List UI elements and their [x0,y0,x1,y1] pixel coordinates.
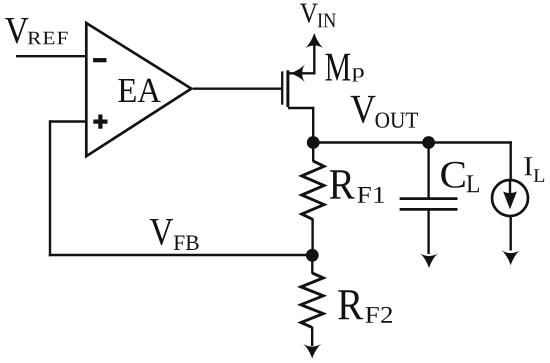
capacitor CL [400,143,458,255]
label Mp [326,54,364,82]
wire VOUT horizontal [313,141,512,143]
resistor RF2 [301,255,323,346]
transistor Mp PMOS [282,64,314,143]
drain horizontal segment [288,107,314,109]
node VOUT dot [307,136,320,149]
label VFB [150,219,199,250]
ground arrow under RF2 [303,344,321,359]
label RF1 [330,170,384,203]
ground arrow under CL [420,253,438,268]
current source IL [492,141,528,250]
label VOUT [351,96,418,128]
op-amp U1 EA [86,23,191,156]
power VIN arrow [305,33,324,75]
wire op-amp output to gate [193,87,281,89]
drain vertical down to VOUT node [312,107,314,143]
resistor RF1 [302,143,324,256]
op-amp minus input symbol [93,58,106,62]
node CL dot [422,136,435,149]
source arrow pointing into channel [290,64,305,82]
gate bar [281,71,283,104]
channel bar [286,70,289,107]
label VIN [300,4,336,28]
wire VFB horizontal [49,254,313,256]
wire left vertical feedback [49,120,51,256]
source horizontal segment [288,72,314,74]
label CL [441,162,479,192]
wire plus input [50,120,86,122]
node VFB dot [306,249,319,262]
label VREF [5,18,68,44]
label RF2 [338,290,392,323]
op-amp plus input symbol [93,115,107,129]
wire VREF input [16,55,86,57]
label IL [524,157,544,182]
ground arrow under IL [502,250,520,265]
